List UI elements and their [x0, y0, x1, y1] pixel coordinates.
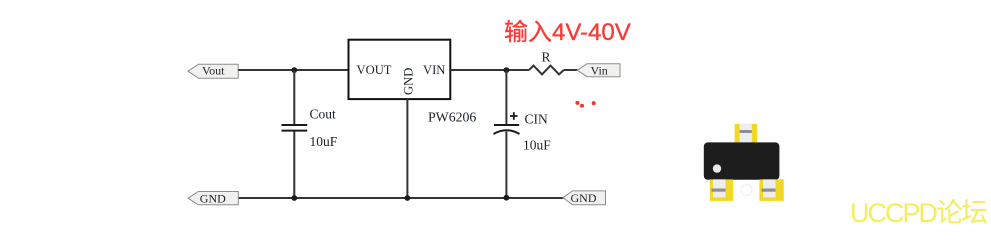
junction node GND/CIN: [504, 195, 510, 201]
wire CIN top: [505, 70, 507, 124]
capacitor Cout: [282, 125, 308, 131]
svg-text:GND: GND: [571, 191, 597, 205]
transistor package SOT-23 bottom lead 2: [759, 179, 783, 201]
label CIN: [525, 112, 549, 127]
plus sign of CIN: [510, 112, 518, 120]
svg-text:输入4V-40V: 输入4V-40V: [504, 19, 631, 46]
junction node VIN/CIN: [504, 67, 510, 73]
annotation input voltage range: [504, 19, 631, 46]
watermark UCCPD forum: [850, 198, 987, 228]
net label Vin: [577, 64, 620, 78]
annotation red dots: [575, 101, 595, 108]
transistor package SOT-23 top lead: [735, 124, 757, 143]
wire Vout to U1: [238, 69, 348, 71]
ground label left GND: [188, 191, 238, 205]
svg-text:CIN: CIN: [525, 112, 549, 127]
svg-text:10uF: 10uF: [523, 138, 551, 153]
svg-text:Cout: Cout: [310, 107, 337, 122]
junction node Vout/Cout: [291, 67, 297, 73]
watermark faint circle: [741, 185, 752, 196]
ground label right GND: [563, 191, 606, 205]
svg-text:R: R: [542, 50, 551, 65]
junction node GND/U1: [405, 195, 411, 201]
op-amp U1 regulator PW6206 box: [349, 40, 451, 99]
wire resistor to Vin: [564, 69, 578, 71]
pin label GND (rotated): [402, 68, 416, 95]
capacitor CIN polarized: [494, 125, 520, 134]
transistor package SOT-23 body: [704, 142, 780, 179]
svg-text:Vin: Vin: [591, 64, 608, 78]
bottom ground wire: [238, 197, 563, 199]
wire Cout bottom: [293, 131, 295, 198]
label Cout: [310, 107, 337, 122]
net label Vout: [188, 64, 238, 79]
transistor package SOT-23 bottom lead 1: [710, 179, 733, 201]
wire CIN bottom: [505, 132, 507, 199]
svg-text:GND: GND: [200, 191, 226, 205]
wire Cout top: [293, 70, 295, 124]
part label PW6206: [428, 110, 476, 125]
svg-text:10uF: 10uF: [310, 134, 338, 149]
junction node GND/Cout: [291, 195, 297, 201]
wire U1 GND stub: [406, 99, 408, 198]
svg-text:UCCPD论坛: UCCPD论坛: [850, 198, 987, 227]
svg-text:GND: GND: [402, 68, 416, 95]
resistor R: [529, 66, 564, 75]
pin label VIN: [423, 63, 445, 77]
svg-text:Vout: Vout: [202, 64, 225, 78]
label R: [542, 50, 551, 65]
wire U1 VIN to resistor: [450, 69, 529, 71]
svg-text:PW6206: PW6206: [428, 110, 476, 125]
value label 10uF (Cout): [310, 134, 338, 149]
pin label VOUT: [357, 63, 392, 77]
svg-text:VOUT: VOUT: [357, 63, 392, 77]
value label 10uF (CIN): [523, 138, 551, 153]
svg-text:VIN: VIN: [423, 63, 445, 77]
